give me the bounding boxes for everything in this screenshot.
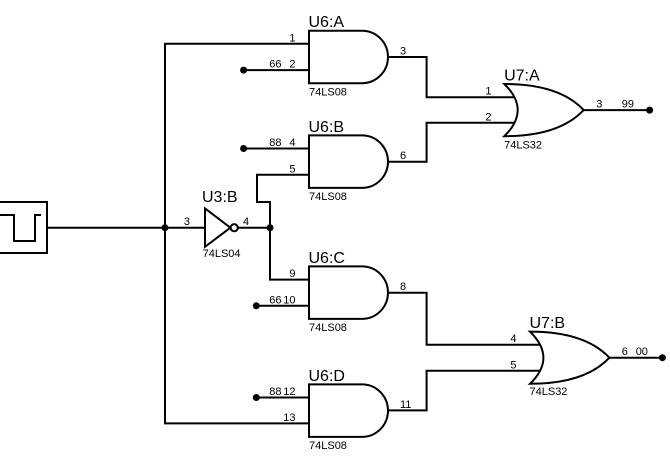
wire: junction up to U6:B pin 5: [257, 175, 309, 228]
svg-text:4: 4: [510, 333, 516, 345]
wire: U6:D output to U7:B pin 5: [388, 371, 543, 411]
wire: pulse output to trunk junction: [47, 227, 165, 229]
wire: U6:A output to U7:A pin 1: [388, 57, 518, 97]
wire: U6:B output to U7:A pin 2: [388, 123, 518, 162]
svg-text:66: 66: [269, 59, 281, 71]
wire: U6:A pin 2 stub: [244, 69, 309, 71]
node: trunk junction: [162, 224, 169, 231]
wire: U6:C pin 10 stub: [256, 305, 309, 307]
svg-text:2: 2: [289, 59, 295, 71]
node: U6:B pin 4 terminal (net 88): [240, 145, 247, 152]
svg-text:9: 9: [289, 268, 295, 280]
node: U7:A output terminal (net 99): [646, 107, 653, 114]
wire: U6:B pin 4 stub: [244, 148, 309, 150]
svg-text:74LS32: 74LS32: [504, 140, 542, 152]
and-gate U6:C body: [309, 266, 388, 319]
svg-text:5: 5: [289, 163, 295, 175]
svg-text:74LS04: 74LS04: [203, 248, 241, 260]
svg-text:U6:B: U6:B: [309, 119, 345, 136]
or-gate U7:A body: [504, 84, 583, 136]
svg-text:66: 66: [269, 294, 281, 306]
svg-text:4: 4: [243, 216, 249, 228]
wire: U6:C output to U7:B pin 4: [388, 293, 543, 345]
wire: U3:B output to junction: [236, 227, 270, 229]
inverter U3:B body: [205, 208, 230, 246]
svg-text:U6:D: U6:D: [309, 368, 345, 385]
and-gate U6:D body: [309, 384, 388, 437]
svg-text:3: 3: [400, 46, 406, 58]
node: U6:C pin 10 terminal (net 66): [253, 302, 260, 309]
svg-text:00: 00: [636, 346, 648, 358]
svg-text:6: 6: [400, 150, 406, 162]
svg-text:12: 12: [283, 386, 295, 398]
svg-text:88: 88: [269, 137, 281, 149]
svg-text:6: 6: [622, 346, 628, 358]
wire: junction down to U6:C pin 9: [270, 228, 309, 280]
svg-text:3: 3: [184, 216, 190, 228]
svg-text:U6:C: U6:C: [309, 250, 345, 267]
inverter U3:B bubble: [231, 224, 238, 231]
svg-text:99: 99: [622, 99, 634, 111]
node: U6:D pin 12 terminal (net 88): [253, 394, 260, 401]
svg-text:8: 8: [400, 281, 406, 293]
svg-text:74LS08: 74LS08: [309, 322, 347, 334]
and-gate U6:A body: [309, 31, 388, 83]
svg-text:5: 5: [510, 359, 516, 371]
svg-text:74LS08: 74LS08: [309, 440, 347, 452]
svg-text:U6:A: U6:A: [309, 14, 345, 31]
svg-text:3: 3: [596, 99, 602, 111]
pulse source waveform: [0, 215, 41, 241]
svg-text:1: 1: [485, 86, 491, 98]
or-gate U7:B body: [530, 332, 609, 384]
wire: trunk up and to U6:A pin 1: [165, 44, 309, 228]
wire: U3:B input: [165, 227, 205, 229]
wire: U7:B output: [609, 357, 662, 359]
wire: U7:A output: [584, 109, 650, 111]
svg-text:11: 11: [400, 399, 411, 411]
wire: trunk down and to U6:D pin 13: [165, 228, 309, 424]
node: inverter output junction: [267, 224, 274, 231]
svg-text:74LS32: 74LS32: [530, 386, 568, 398]
wire: U6:D pin 12 stub: [256, 397, 309, 399]
svg-text:1: 1: [289, 32, 295, 44]
svg-text:U7:B: U7:B: [530, 315, 566, 332]
node: U6:A pin 2 terminal (net 66): [240, 67, 247, 74]
and-gate U6:B body: [309, 135, 388, 188]
svg-text:U3:B: U3:B: [202, 189, 238, 206]
pulse source box: [0, 202, 47, 253]
svg-text:10: 10: [283, 294, 295, 306]
svg-text:88: 88: [269, 386, 281, 398]
svg-text:74LS08: 74LS08: [309, 86, 347, 98]
svg-text:13: 13: [283, 412, 295, 424]
svg-text:4: 4: [289, 137, 295, 149]
svg-text:U7:A: U7:A: [504, 67, 540, 84]
svg-text:2: 2: [485, 111, 491, 123]
node: U7:B output terminal (net 00): [659, 354, 666, 361]
svg-text:74LS08: 74LS08: [309, 191, 347, 203]
